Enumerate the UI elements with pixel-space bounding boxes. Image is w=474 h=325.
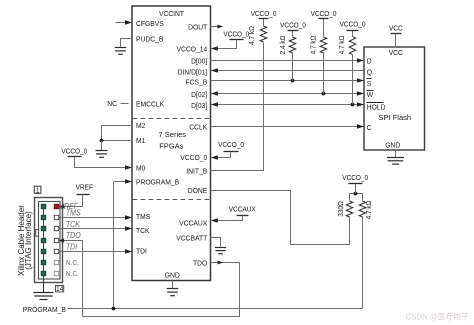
- ground at FPGA GND: [167, 288, 179, 290]
- ground at VCCBATT: [215, 247, 226, 249]
- svg-text:VCCO_0: VCCO_0: [251, 11, 277, 18]
- svg-text:VCCAUX: VCCAUX: [229, 206, 256, 213]
- wire M1 node to ground: [101, 141, 103, 151]
- junction FCS_B pullup: [291, 79, 295, 83]
- svg-text:(JTAG Interface): (JTAG Interface): [24, 211, 33, 270]
- svg-text:M2: M2: [136, 122, 145, 130]
- wire PROGRAM_B vertical to bottom net: [113, 182, 115, 309]
- svg-text:DIN/D[01]: DIN/D[01]: [178, 68, 208, 76]
- ground at JTAG header: [34, 292, 54, 294]
- svg-text:VCCO_0: VCCO_0: [223, 31, 249, 38]
- svg-text:2.4 kΩ: 2.4 kΩ: [280, 36, 287, 55]
- JTAG left pin row 6 (GND): [41, 260, 46, 265]
- JTAG left pin row 7 (GND): [41, 271, 46, 276]
- svg-text:INIT_B: INIT_B: [186, 167, 207, 175]
- svg-text:TDI: TDI: [66, 242, 77, 251]
- svg-text:D[02]: D[02]: [191, 91, 207, 99]
- svg-text:VCCINT: VCCINT: [159, 9, 185, 17]
- wire FCS_B to SPI S: [211, 80, 365, 82]
- svg-text:TMS: TMS: [66, 208, 81, 217]
- JTAG ground bus line: [43, 207, 45, 279]
- svg-text:CCLK: CCLK: [189, 123, 207, 131]
- svg-text:TDI: TDI: [136, 247, 147, 255]
- wire junction to VCCO_0 bar: [355, 184, 357, 194]
- power VCCO_0 above DONE pullups: [349, 183, 363, 185]
- svg-text:W: W: [367, 91, 374, 99]
- svg-text:D[03]: D[03]: [191, 101, 207, 109]
- JTAG right pin row 7: [54, 271, 58, 275]
- FPGA section divider dashed line 2: [133, 199, 211, 201]
- wire R2 to VCCO_0: [292, 31, 294, 37]
- power VCCO_0 above R2: [288, 30, 299, 32]
- svg-text:PROGRAM_B: PROGRAM_B: [23, 306, 66, 314]
- svg-text:330Ω: 330Ω: [338, 201, 345, 217]
- svg-text:1: 1: [36, 187, 40, 194]
- power VCCO_0 above R1: [259, 18, 269, 20]
- wire M1: [102, 140, 133, 142]
- svg-text:S: S: [367, 79, 372, 87]
- JTAG right pin row 2: [54, 215, 58, 219]
- junction D[03] pullup: [351, 103, 355, 107]
- power VCCO_0 above R4: [347, 30, 359, 32]
- svg-text:D: D: [367, 57, 372, 65]
- svg-text:FPGAs: FPGAs: [159, 142, 183, 151]
- JTAG left pin row 4 (GND): [41, 238, 46, 243]
- wire VCC to SPI box: [395, 34, 397, 48]
- wire R1 to VCCO_0: [263, 19, 265, 27]
- JTAG header outer shroud box: [35, 198, 63, 283]
- svg-text:TCK: TCK: [136, 226, 150, 234]
- svg-text:FCS_B: FCS_B: [185, 78, 207, 86]
- wire PROGRAM_B net up right side to 4.7k pullup: [362, 217, 364, 309]
- wire VCCAUX to pin: [217, 216, 243, 221]
- svg-text:PUDC_B: PUDC_B: [136, 35, 164, 43]
- svg-text:VCCO_0: VCCO_0: [218, 142, 244, 149]
- JTAG right pin row 4: [54, 238, 58, 242]
- wire TMS header to FPGA: [59, 217, 127, 219]
- wire TCK header to FPGA: [59, 228, 127, 230]
- wire CCLK to SPI C: [211, 126, 365, 128]
- wire TDO return bottom: [83, 263, 240, 317]
- wire CFGBVS input arrow: [116, 22, 127, 24]
- svg-text:TDO: TDO: [193, 259, 208, 267]
- svg-text:CFGBVS: CFGBVS: [136, 20, 164, 28]
- svg-text:VCCO_0: VCCO_0: [311, 11, 337, 18]
- svg-text:HOLD: HOLD: [367, 103, 386, 111]
- wire D[03] to SPI HOLD: [212, 104, 365, 106]
- svg-text:CSDN @医疗电子: CSDN @医疗电子: [406, 312, 470, 322]
- JTAG header inner box: [39, 202, 61, 280]
- svg-text:4.7 kΩ: 4.7 kΩ: [249, 26, 256, 45]
- svg-text:4.7 kΩ: 4.7 kΩ: [339, 36, 346, 55]
- wire PROGRAM_B pin arrow: [114, 181, 127, 183]
- JTAG right pin VREF (red): [54, 204, 59, 209]
- svg-text:VCCO_0: VCCO_0: [280, 22, 306, 29]
- wire VCCO_0 to pin: [217, 152, 231, 158]
- wire DIN/D[01] from SPI Q: [212, 70, 365, 72]
- wire VCCBATT to ground: [211, 238, 221, 247]
- resistor R3 4.7k D[02] pullup: [323, 53, 325, 94]
- wire VCCO_0 to VCCO_14 pin: [217, 40, 237, 49]
- svg-text:M1: M1: [136, 137, 145, 145]
- svg-text:VCCO_0: VCCO_0: [180, 154, 207, 162]
- svg-text:VREF: VREF: [76, 184, 93, 191]
- FPGA U1 7 Series box: [132, 6, 211, 281]
- svg-text:VCC: VCC: [389, 25, 403, 32]
- FPGA section divider dashed line 1: [133, 118, 211, 120]
- resistor R1 4.7k INIT_B pullup: [260, 26, 266, 42]
- svg-text:N.C.: N.C.: [66, 271, 79, 278]
- svg-text:VCCO_14: VCCO_14: [176, 45, 207, 53]
- resistor R6 4.7k PROGRAM_B pullup: [359, 201, 365, 217]
- svg-text:VCC: VCC: [389, 49, 403, 57]
- wire VCCO_0 to M0 arrow: [75, 157, 126, 168]
- svg-text:VCCO_0: VCCO_0: [342, 175, 368, 182]
- JTAG left pin row 5 (GND): [41, 249, 46, 254]
- wire M2: [102, 126, 133, 141]
- svg-text:PROGRAM_B: PROGRAM_B: [136, 178, 179, 186]
- wire VREF to header pin: [61, 195, 83, 207]
- JTAG left pin row 1 (GND): [41, 204, 46, 209]
- svg-text:Q: Q: [367, 68, 373, 76]
- wire R3 to VCCO_0: [323, 19, 325, 37]
- pin 14 marker box: [56, 286, 64, 292]
- wire DOUT output arrow: [211, 26, 219, 28]
- JTAG right pin row 3: [54, 226, 58, 230]
- JTAG header key notch: [36, 230, 39, 237]
- SPI Flash U2 box: [364, 47, 425, 150]
- svg-text:M0: M0: [136, 164, 145, 172]
- wire FPGA GND to ground: [172, 281, 174, 289]
- svg-text:GND: GND: [385, 141, 400, 149]
- svg-text:4.7 kΩ: 4.7 kΩ: [310, 36, 317, 55]
- wire D[02] to SPI W: [212, 93, 365, 95]
- wire PUDC_B to ground: [121, 39, 133, 47]
- JTAG header ground stem: [43, 279, 45, 293]
- wire INIT_B to pullup R1: [211, 43, 264, 171]
- JTAG left pin row 2 (GND): [41, 215, 46, 220]
- ground at M1/M2: [96, 150, 108, 152]
- wire TDI header to FPGA: [59, 251, 127, 253]
- svg-text:NC: NC: [107, 100, 117, 108]
- wire SPI GND to ground: [395, 151, 397, 158]
- svg-text:14: 14: [56, 286, 63, 293]
- svg-text:VCCO_0: VCCO_0: [61, 148, 87, 155]
- pin 1 marker box: [34, 186, 41, 193]
- svg-text:EMCCLK: EMCCLK: [136, 100, 164, 108]
- resistor R4 4.7k D[03] pullup: [352, 55, 354, 105]
- svg-text:VCCAUX: VCCAUX: [179, 219, 207, 227]
- JTAG right pin row 6: [54, 260, 58, 264]
- ground at PUDC_B: [115, 47, 127, 49]
- svg-text:D[00]: D[00]: [191, 57, 207, 65]
- svg-text:GND: GND: [165, 271, 180, 279]
- svg-text:TMS: TMS: [136, 213, 150, 221]
- svg-text:C: C: [367, 124, 372, 132]
- wire NC stub to EMCCLK: [121, 103, 129, 105]
- svg-text:TDO: TDO: [66, 231, 81, 240]
- svg-text:DOUT: DOUT: [188, 23, 208, 31]
- wire TDO output: [211, 262, 240, 264]
- junction DONE/PROGRAM_B pullup VCCO_0: [354, 192, 358, 196]
- svg-text:VCCO_0: VCCO_0: [340, 21, 366, 28]
- junction D[02] pullup: [322, 92, 326, 96]
- resistor R5 330 DONE pullup: [346, 201, 352, 217]
- wire D[00] to SPI D: [211, 60, 365, 62]
- svg-text:7 Series: 7 Series: [159, 130, 187, 139]
- wire PROGRAM_B bottom net: [68, 308, 363, 310]
- JTAG left pin row 3 (GND): [41, 226, 46, 231]
- wire R4 to VCCO_0: [352, 31, 354, 37]
- ground at SPI flash: [387, 157, 404, 159]
- svg-text:DONE: DONE: [188, 187, 208, 195]
- resistor R2 2.4k FCS_B pullup: [292, 53, 294, 81]
- junction M1 M2 node: [100, 139, 104, 143]
- wire DONE to pullup network: [211, 191, 350, 245]
- junction PROGRAM_B: [112, 307, 116, 311]
- wire TDO header down to bottom return: [61, 241, 83, 317]
- svg-text:VCCBATT: VCCBATT: [176, 234, 208, 242]
- svg-text:4.7 kΩ: 4.7 kΩ: [366, 201, 373, 220]
- JTAG right pin row 5: [54, 249, 58, 253]
- svg-text:SPI Flash: SPI Flash: [379, 113, 412, 122]
- power VCCO_0 above R3: [319, 18, 329, 20]
- wire R5 top to VCCO_0 node: [350, 194, 363, 201]
- svg-text:TCK: TCK: [66, 220, 81, 229]
- svg-text:N.C.: N.C.: [66, 260, 79, 267]
